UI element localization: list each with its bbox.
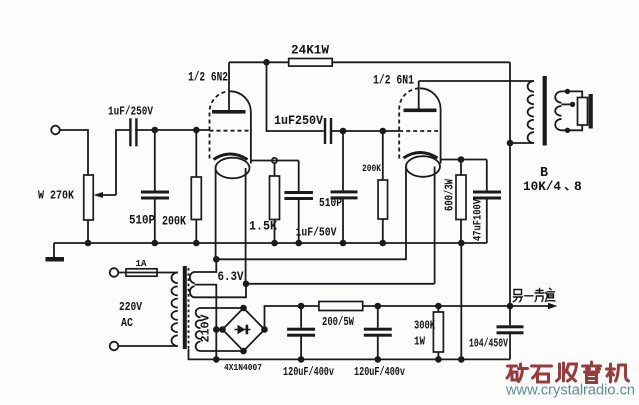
wire bridge DC- stub (216, 329, 222, 331)
node plate1 (263, 59, 270, 66)
svg-text:200K: 200K (362, 163, 382, 175)
capacitor 120uF/400v no.2 (377, 306, 379, 328)
svg-text:6.3V: 6.3V (218, 270, 244, 284)
svg-text:300K: 300K (414, 319, 436, 333)
bridge rectifier 4X1N4007 (223, 308, 265, 351)
capacitor 120uF/400v no.1 (300, 306, 302, 328)
transformer T1 6.3V winding (190, 272, 195, 297)
speaker (578, 98, 588, 126)
wire AC bottom (119, 345, 178, 347)
node cap1 top (298, 303, 305, 310)
watermark crystalradio (CJK drawn) (507, 362, 629, 383)
svg-text:510P: 510P (129, 214, 155, 228)
svg-text:1/2 6N2: 1/2 6N2 (188, 71, 228, 85)
svg-text:1uF/250V: 1uF/250V (108, 105, 154, 119)
svg-text:8: 8 (574, 179, 582, 194)
node OPT primary bottom (507, 140, 514, 147)
svg-text:510P: 510P (319, 197, 342, 210)
tube V2 heater pins (405, 167, 407, 260)
node cap2 top (375, 303, 382, 310)
node 510P-2 junction (340, 128, 347, 135)
tube V1 plate (212, 110, 246, 114)
svg-text:210V: 210V (200, 314, 213, 342)
heater wire B (195, 284, 247, 298)
wire C1 to grid V1 (135, 129, 210, 131)
svg-text:200/5W: 200/5W (322, 315, 355, 329)
wire input to pot (60, 130, 88, 175)
tube V2 plate (404, 109, 437, 113)
speaker wiring top (562, 91, 583, 97)
tube V1 envelope (210, 91, 231, 158)
resistor 200/5W (319, 302, 363, 311)
capacitor C1 1uF/250V (129, 118, 131, 146)
tube V1 cathode (214, 154, 248, 160)
transformer B primary winding (528, 81, 534, 143)
resistor 300K 1W (437, 306, 439, 312)
wire C2 to grid V2 (331, 130, 399, 132)
wire 210V top to bridge (201, 307, 244, 309)
heater wire A (195, 259, 217, 272)
tube V2 cathode (404, 153, 438, 159)
secondary tap (562, 103, 573, 105)
ground symbol (53, 243, 55, 258)
bridge inner diode (235, 329, 251, 331)
wire shield to B- bus (189, 349, 511, 359)
ground bus (54, 242, 487, 244)
arrow to other channel (548, 303, 558, 309)
tube V2 grid (dashed) (399, 130, 438, 132)
svg-text:120uF/400v: 120uF/400v (354, 366, 405, 379)
wire B+ vertical (509, 62, 511, 306)
svg-text:1uF/50V: 1uF/50V (296, 226, 338, 240)
svg-text:1W: 1W (414, 335, 426, 349)
svg-text:1uF250V: 1uF250V (274, 114, 323, 128)
tube V1 heater pins (215, 168, 217, 259)
transformer T1 core (183, 266, 187, 349)
node grid1-200K junction (193, 127, 200, 134)
resistor 200K (stage 1 grid) (195, 130, 197, 177)
svg-text:W 270K: W 270K (38, 189, 75, 203)
wire wiper up to coupling cap (116, 130, 130, 195)
resistor 24K1W (289, 59, 333, 67)
input terminal J1 (51, 126, 60, 135)
node 300K top (435, 303, 442, 310)
resistor 600/3W (460, 160, 462, 176)
svg-text:1A: 1A (136, 258, 147, 269)
svg-text:1.5K: 1.5K (249, 220, 277, 234)
wire V1 plate to B+ rail (229, 61, 510, 63)
AC terminal bottom (110, 342, 119, 351)
wire V2 plate to OPT (419, 80, 534, 82)
capacitor 104/450V (509, 306, 511, 325)
node 200K-2 junction (380, 128, 387, 135)
tube V1 grid (dashed) (210, 130, 249, 132)
fuse 1A (119, 272, 178, 274)
capacitor 1uF/50V cathode bypass (298, 161, 300, 192)
svg-text:600/3W: 600/3W (444, 179, 457, 211)
AC terminal top (110, 268, 119, 277)
transformer B secondary winding (555, 91, 561, 130)
transformer B core (543, 76, 547, 146)
svg-text:10K/4: 10K/4 (523, 179, 561, 194)
wire bridge DC+ up to B+ rail (265, 306, 319, 330)
resistor 1.5K cathode (274, 163, 276, 176)
svg-text:4X1N4007: 4X1N4007 (224, 362, 262, 373)
node grid1-510P junction (152, 127, 159, 134)
speaker wiring bottom (562, 125, 583, 130)
svg-text:47uF100V: 47uF100V (473, 199, 485, 241)
svg-text:200K: 200K (162, 215, 186, 229)
B+ rail right of 200/5W (363, 305, 551, 307)
svg-text:24K1W: 24K1W (291, 44, 329, 58)
tube V2 envelope (399, 88, 420, 158)
transformer T1 210V winding (196, 308, 201, 351)
svg-text:104/450V: 104/450V (469, 338, 508, 351)
potentiometer W 270K (84, 175, 94, 220)
svg-text:1/2 6N1: 1/2 6N1 (373, 74, 414, 88)
svg-text:AC: AC (121, 316, 133, 330)
pot wiper arrow (99, 194, 116, 196)
svg-text:120uF/400v: 120uF/400v (283, 366, 334, 379)
svg-text:www.crystalradio.cn: www.crystalradio.cn (505, 383, 635, 399)
label other-channel (CJK) (513, 288, 555, 302)
resistor 200K (stage 2 grid) (382, 131, 384, 180)
capacitor 47uF100V cathode bypass (486, 160, 488, 191)
node cathode1 (open circle) (272, 158, 277, 163)
capacitor C2 1uF250V coupling (324, 118, 326, 144)
transformer T1 primary winding (171, 273, 177, 347)
capacitor 510P (stage 2) (342, 131, 344, 190)
wire ground bus to B- (460, 243, 462, 359)
wire pot bottom to ground bus (87, 220, 89, 243)
wire V1 cathode (251, 160, 299, 162)
node cathode2 (458, 156, 465, 163)
capacitor 510P (stage 1) (154, 130, 156, 191)
node B+ takeoff (507, 303, 514, 310)
wire plate node down to C2 (267, 62, 324, 131)
wire 210V bottom to bridge (201, 350, 244, 352)
wire V2 cathode (441, 159, 487, 161)
transformer T1 shield (dashed) (188, 268, 190, 349)
svg-text:220V: 220V (119, 300, 143, 314)
heater center tap to B- (195, 285, 217, 360)
